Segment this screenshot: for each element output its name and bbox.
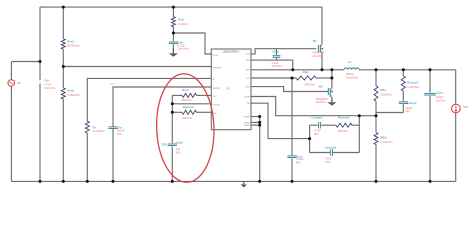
- svg-text:12mOhm: 12mOhm: [316, 101, 326, 104]
- svg-text:5.49kOhm: 5.49kOhm: [67, 93, 80, 97]
- svg-text:50V: 50V: [296, 160, 301, 164]
- svg-text:Cbst: Cbst: [272, 50, 278, 54]
- svg-text:16V: 16V: [176, 150, 181, 154]
- svg-text:6.19kOhm: 6.19kOhm: [407, 85, 420, 89]
- svg-text:50V: 50V: [326, 160, 331, 164]
- svg-text:2.2Ohm: 2.2Ohm: [178, 22, 188, 26]
- svg-text:Ccomp3: Ccomp3: [405, 101, 417, 105]
- svg-text:Rdm: Rdm: [303, 70, 310, 74]
- svg-text:LM2142RGY: LM2142RGY: [222, 49, 239, 53]
- svg-text:Ccomp1: Ccomp1: [311, 116, 323, 120]
- svg-text:Iout: Iout: [463, 105, 468, 109]
- svg-text:8.2mOhm: 8.2mOhm: [346, 75, 359, 79]
- svg-text:34kOhm: 34kOhm: [182, 116, 193, 120]
- svg-text:41.2kOhm: 41.2kOhm: [93, 129, 106, 133]
- svg-text:EN/SYNC: EN/SYNC: [213, 67, 222, 69]
- svg-text:80mOhm: 80mOhm: [272, 64, 283, 68]
- svg-text:EN: EN: [111, 83, 115, 86]
- svg-text:L1: L1: [348, 60, 352, 64]
- svg-text:1.74kOhm: 1.74kOhm: [380, 140, 393, 144]
- svg-text:16mOhm: 16mOhm: [44, 86, 56, 90]
- svg-text:Rfbt: Rfbt: [380, 88, 386, 92]
- svg-text:PGND: PGND: [244, 116, 250, 118]
- svg-text:15kOhm: 15kOhm: [338, 129, 349, 133]
- svg-text:Cout: Cout: [436, 91, 443, 95]
- svg-text:Rvb: Rvb: [178, 18, 184, 22]
- svg-text:U1: U1: [226, 86, 230, 90]
- svg-text:Rvcc: Rvcc: [182, 88, 189, 92]
- svg-text:Cvdd: Cvdd: [176, 141, 183, 145]
- svg-text:Rpgood: Rpgood: [183, 105, 194, 109]
- svg-text:+: +: [14, 78, 16, 82]
- svg-text:Rfbb: Rfbb: [380, 135, 387, 139]
- svg-text:M1: M1: [313, 39, 317, 43]
- svg-text:390Ohm: 390Ohm: [305, 82, 316, 86]
- svg-text:Rvs2: Rvs2: [67, 89, 74, 93]
- svg-text:16mOhm: 16mOhm: [178, 47, 190, 51]
- svg-text:50V: 50V: [314, 132, 319, 136]
- svg-text:100kOhm: 100kOhm: [380, 92, 392, 96]
- svg-text:PVIN: PVIN: [213, 55, 218, 57]
- svg-text:Vin: Vin: [17, 81, 22, 85]
- svg-text:SS/TRK: SS/TRK: [213, 88, 221, 90]
- svg-text:100kOhm: 100kOhm: [181, 98, 193, 102]
- svg-text:5mOhm: 5mOhm: [436, 98, 446, 102]
- svg-text:COMP: COMP: [244, 96, 251, 98]
- svg-text:PGOOD: PGOOD: [213, 105, 221, 107]
- svg-text:Rcomp3: Rcomp3: [407, 81, 419, 85]
- svg-text:Rcomp1: Rcomp1: [338, 116, 350, 120]
- svg-text:220µF: 220µF: [436, 95, 444, 99]
- svg-text:86.6kOhm: 86.6kOhm: [67, 44, 80, 48]
- svg-text:PGND: PGND: [244, 122, 250, 124]
- svg-text:12mOhm: 12mOhm: [312, 55, 322, 58]
- svg-text:M2: M2: [319, 85, 323, 89]
- svg-text:Rvs1: Rvs1: [67, 39, 74, 43]
- svg-text:−: −: [13, 86, 15, 90]
- svg-text:50V: 50V: [405, 109, 410, 113]
- svg-text:Cin: Cin: [44, 79, 49, 83]
- svg-text:AGND: AGND: [244, 124, 250, 127]
- svg-text:Ccomp2: Ccomp2: [325, 145, 337, 149]
- svg-text:VDD: VDD: [161, 143, 167, 147]
- svg-text:16V: 16V: [117, 132, 122, 136]
- svg-text:VCC: VCC: [213, 96, 218, 98]
